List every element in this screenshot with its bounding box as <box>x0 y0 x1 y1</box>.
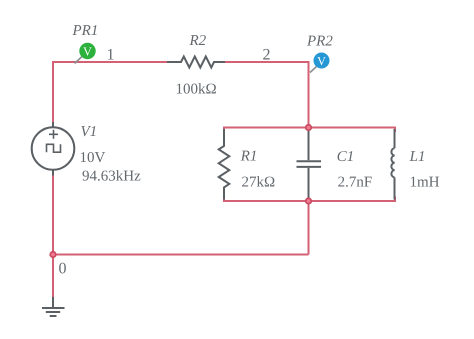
wire node 2 right vertical down to tank top <box>308 61 310 128</box>
wire tank bottom horizontal <box>224 200 395 202</box>
label C1 <box>338 151 353 161</box>
capacitor C1 <box>297 129 322 200</box>
label R1 <box>241 151 256 161</box>
label PR1 <box>72 25 96 35</box>
wire tank right corner stubs <box>394 127 396 203</box>
wire left vertical upper (node 1 to V1 plus) <box>52 61 54 123</box>
voltage source V1 <box>32 122 75 176</box>
label PR2 <box>307 36 333 46</box>
value 1mH <box>411 177 439 187</box>
wire node 0 bottom horizontal <box>53 254 309 256</box>
junction node 0 <box>49 251 56 258</box>
resistor R2 <box>167 57 225 68</box>
label R2 <box>189 35 205 45</box>
label L1 <box>409 151 423 161</box>
value 27kΩ <box>242 176 274 186</box>
value 100kΩ <box>177 83 216 94</box>
label V1 <box>81 126 95 136</box>
value 2.7nF <box>338 177 371 187</box>
probe PR1 <box>79 43 95 59</box>
wire tank left corner stubs <box>223 127 225 203</box>
value 10V <box>81 152 105 162</box>
ground <box>42 297 65 316</box>
probe PR2 pointer <box>310 67 317 73</box>
node 0 number <box>59 263 66 274</box>
inductor L1 <box>391 129 394 200</box>
wire node 1 top horizontal left of R2 <box>53 61 168 63</box>
wire tank top horizontal <box>224 127 395 129</box>
junction tank bottom <box>305 197 312 204</box>
junction node 2 / tank top <box>305 124 312 131</box>
wire node 2 top horizontal right of R2 <box>225 61 310 63</box>
resistor R1 <box>219 129 230 200</box>
wire middle vertical tank bottom to node 0 <box>308 201 310 255</box>
node 1 number <box>108 49 114 60</box>
wire left vertical lower (V1 minus to ground) <box>52 175 54 298</box>
value 94.63kHz <box>82 170 140 181</box>
probe PR1 pointer <box>75 57 83 64</box>
node 2 number <box>263 49 269 60</box>
probe PR2 <box>314 53 330 69</box>
